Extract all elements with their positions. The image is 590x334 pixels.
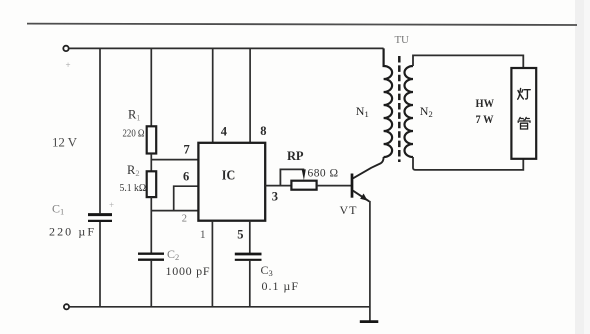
wire top power rail (69, 47, 384, 49)
wire C3 to rail (249, 261, 251, 307)
potentiometer RP box (291, 181, 316, 190)
svg-text:TU: TU (395, 34, 410, 46)
wire RP to base (317, 185, 351, 187)
wire R2 to C2 (150, 197, 152, 253)
potentiometer RP wiper arm (280, 169, 304, 185)
svg-text:8: 8 (260, 124, 266, 138)
svg-text:5: 5 (237, 228, 243, 242)
svg-text:4: 4 (221, 125, 228, 139)
transistor VT emitter arrowhead (360, 194, 368, 201)
capacitor C2 (138, 252, 164, 254)
wire left branch lower (C1 to rail) (99, 222, 101, 307)
op-amp IC U1 box (198, 143, 265, 221)
top rule (27, 24, 577, 25)
svg-text:+: + (109, 200, 114, 210)
transistor VT collector (353, 157, 384, 178)
wire pin 4 (212, 48, 214, 142)
wire pin 3 (265, 185, 291, 187)
svg-text:5.1 kΩ: 5.1 kΩ (120, 182, 147, 194)
wire R1 to R2 (pin7 node) (150, 154, 152, 172)
wire pin 2 (151, 210, 198, 212)
ground (360, 320, 379, 323)
transformer TU secondary winding N2 (405, 66, 414, 157)
label lamp glyph 灯 (drawn) (518, 89, 531, 100)
wire pin 1 (211, 221, 213, 307)
resistor R1 (147, 126, 157, 153)
wire bottom ground rail (70, 306, 370, 308)
wire emitter down (369, 201, 371, 322)
potentiometer RP wiper arrowhead (302, 169, 306, 180)
wire pin 8 (249, 48, 251, 142)
svg-text:HW: HW (476, 96, 495, 110)
lamp (fluorescent tube) box (511, 68, 536, 159)
transformer TU primary winding N1 (384, 48, 393, 157)
svg-text:680 Ω: 680 Ω (308, 168, 339, 180)
svg-text:6: 6 (183, 170, 189, 184)
svg-text:+: + (66, 60, 71, 70)
svg-text:1: 1 (200, 227, 206, 241)
wire pin 6 (174, 186, 199, 210)
transformer core (dashed) (398, 56, 401, 162)
svg-text:RP: RP (287, 149, 304, 163)
svg-text:7 W: 7 W (476, 112, 494, 126)
svg-text:3: 3 (272, 189, 278, 203)
capacitor C3 (235, 253, 262, 256)
wire pin 7 (151, 159, 198, 161)
resistor R2 (147, 171, 157, 197)
svg-text:0.1 µF: 0.1 µF (262, 279, 299, 293)
wire C2 to rail (150, 261, 152, 307)
svg-text:2: 2 (182, 213, 187, 224)
svg-text:1000 pF: 1000 pF (166, 264, 210, 278)
svg-text:IC: IC (222, 168, 236, 183)
terminal - (bottom-left) (64, 304, 69, 309)
wire pin 5 (249, 221, 251, 254)
svg-text:12 V: 12 V (52, 135, 78, 150)
svg-text:VT: VT (340, 203, 358, 217)
wire secondary bottom to lamp (413, 157, 523, 170)
capacitor C1 (electrolytic) (88, 213, 112, 216)
svg-text:7: 7 (184, 143, 190, 157)
wire left branch upper (rail to C1) (99, 48, 101, 213)
wire rail to R1 (150, 48, 152, 126)
transistor VT base bar (351, 174, 354, 198)
svg-text:220 Ω: 220 Ω (123, 128, 145, 140)
terminal + (top-left) (63, 46, 68, 51)
wire secondary top to lamp (413, 55, 523, 68)
transistor VT emitter (353, 191, 370, 202)
label lamp glyph 管 (drawn) (518, 117, 530, 129)
